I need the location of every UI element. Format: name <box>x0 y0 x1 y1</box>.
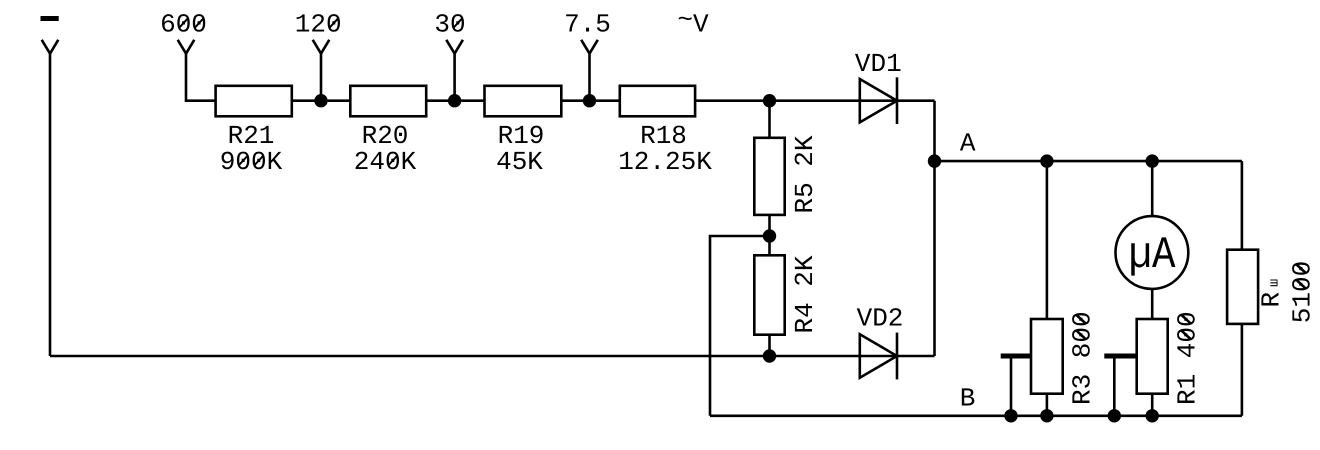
wire node R5-R4 to left down to node B rail <box>710 236 770 416</box>
wire node A rail <box>935 160 1242 163</box>
diode VD2 <box>857 303 904 379</box>
wire R1 wiper to node B rail <box>1113 356 1116 416</box>
resistor R3 <box>1031 311 1098 415</box>
wire R20 to R19 <box>426 99 484 102</box>
svg-text:R1 400: R1 400 <box>1173 311 1203 405</box>
svg-text:120: 120 <box>295 10 342 40</box>
svg-text:VD2: VD2 <box>857 303 904 333</box>
terminal minus arrow <box>42 40 59 54</box>
svg-text:A: A <box>960 128 976 158</box>
wire terminal 120 <box>320 54 323 101</box>
svg-text:R3 800: R3 800 <box>1068 311 1098 405</box>
junction meter top <box>1146 154 1159 167</box>
resistor R4 <box>754 236 820 356</box>
ammeter PA1 <box>1116 216 1189 289</box>
junction R3 bottom <box>1040 409 1053 422</box>
junction R5 top <box>763 94 776 107</box>
junction R3 top <box>1040 154 1053 167</box>
terminal 7.5 arrow <box>581 40 598 54</box>
R3 wiper bar <box>1001 354 1031 359</box>
junction R4 bottom <box>763 349 776 362</box>
label R1 400 <box>1173 311 1203 405</box>
svg-text:45K: 45K <box>496 147 543 177</box>
junction R1 bottom <box>1146 409 1159 422</box>
wire R18 to VD1 <box>695 99 934 102</box>
svg-text:600: 600 <box>160 10 207 40</box>
terminal minus polarity mark <box>41 16 59 21</box>
resistor R5 <box>754 101 820 236</box>
junction R1 wiper bottom <box>1108 409 1121 422</box>
svg-text:30: 30 <box>434 10 465 40</box>
diode VD1 <box>855 49 902 124</box>
svg-text:12.25K: 12.25K <box>618 147 712 177</box>
wire rail to ammeter <box>1151 161 1154 216</box>
terminal 600 arrow <box>178 40 195 54</box>
svg-text:B: B <box>960 384 976 414</box>
value 5100 <box>1288 261 1318 323</box>
junction 7.5 <box>583 94 596 107</box>
svg-text:VD1: VD1 <box>855 49 902 79</box>
svg-text:7.5: 7.5 <box>564 10 611 40</box>
wire ammeter to R1 <box>1151 289 1154 319</box>
wire terminal 30 <box>453 54 456 101</box>
junction R5-R4 <box>763 229 776 242</box>
wire rail corner to Rsh <box>1241 161 1244 250</box>
terminal 30 arrow <box>446 40 463 54</box>
resistor R21 <box>216 86 292 177</box>
wire R21 to R20 <box>292 99 351 102</box>
node A <box>928 154 941 167</box>
terminal 120 arrow <box>313 40 330 54</box>
wire vertical VD1-VD2 cathodes <box>933 101 936 356</box>
wire rail to R3 <box>1046 161 1049 319</box>
zero slash marks (slashed-zero style) <box>179 18 463 165</box>
svg-text:R5 2K: R5 2K <box>790 135 820 213</box>
wire R19 to R18 <box>561 99 620 102</box>
resistor Rsh <box>1227 250 1317 416</box>
svg-text:µA: µA <box>1129 230 1176 281</box>
label R3 800 <box>1068 311 1098 405</box>
wire left vertical <box>49 54 52 356</box>
resistor R1 <box>1137 311 1203 415</box>
junction 30 <box>448 94 461 107</box>
svg-text:R4 2K: R4 2K <box>790 255 820 333</box>
wire node B rail <box>710 414 1242 417</box>
wire R3 wiper to node B rail <box>1010 356 1013 416</box>
R1 wiper bar <box>1104 354 1136 359</box>
junction R3 wiper bottom <box>1004 409 1017 422</box>
wire terminal 7.5 <box>588 54 591 101</box>
svg-text:900K: 900K <box>220 147 283 177</box>
svg-text:240K: 240K <box>354 147 417 177</box>
resistor R19 <box>485 86 562 177</box>
wire terminal 600 to R21 <box>186 54 216 101</box>
resistor R18 <box>618 86 712 177</box>
svg-text:~V: ~V <box>677 5 709 40</box>
resistor R20 <box>350 86 426 177</box>
wire bottom-left horizontal <box>50 355 935 358</box>
junction 120 <box>314 94 327 107</box>
